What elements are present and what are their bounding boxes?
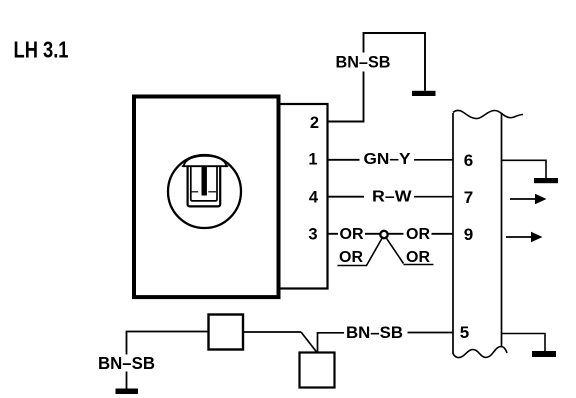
wire pin5 to ground [502,334,546,352]
wire B1 to branch point [243,331,301,333]
svg-text:BN–SB: BN–SB [336,53,391,72]
valve body outer wall [188,167,221,207]
wire splice to OR right [389,233,404,235]
valve level line left [191,191,198,193]
svg-text:OR: OR [406,249,430,266]
AIC valve module box [134,97,279,298]
valve level line right [208,191,216,193]
svg-text:OR: OR [339,249,363,266]
arrow at pin7 [510,198,537,200]
wire B2 up and right [318,333,345,353]
svg-text:OR: OR [406,226,430,243]
branch diagonal into B2 [301,332,317,353]
wire pin3 stub [327,233,338,235]
svg-text:5: 5 [460,323,469,342]
valve body inner wall [191,167,217,201]
cable harness right line [501,114,503,347]
wire to pin5 [408,332,453,334]
wire pin2 to ground, lower segment [327,72,364,122]
svg-text:7: 7 [464,188,473,207]
cable torn edge top [453,110,523,118]
svg-text:BN–SB: BN–SB [346,323,403,342]
svg-text:9: 9 [464,225,473,244]
svg-text:LH 3.1: LH 3.1 [14,37,69,63]
branch wire lower-left to splice [367,238,383,265]
svg-text:OR: OR [340,226,364,243]
cable torn edge bottom [453,347,507,358]
branch underline lower-right [404,264,434,266]
branch underline lower-left [338,265,368,267]
wire pin4 left segment [327,196,364,198]
wire pin1 left segment [327,159,360,161]
arrow at pin9 [506,236,533,238]
ground at pin5 bar [532,351,556,357]
wire pin4 right segment to pin7 [414,196,453,198]
svg-text:GN–Y: GN–Y [364,151,411,168]
svg-text:1: 1 [308,151,317,169]
wire OR to splice [365,233,380,235]
svg-text:BN–SB: BN–SB [98,353,155,373]
valve symbol circle [168,155,241,228]
ground G1 bar [412,91,436,96]
wire pin2 upper segment [364,33,426,91]
ground at pin6 bar [534,178,558,183]
svg-text:6: 6 [464,151,473,170]
component box B2 [300,353,335,388]
bottom wire left horizontal [127,332,209,355]
valve plunger [202,166,207,196]
svg-text:R–W: R–W [372,189,412,206]
svg-text:4: 4 [309,189,319,207]
wire pin6 to ground [502,160,547,178]
svg-text:3: 3 [308,226,317,244]
component box B1 [209,315,244,350]
bottom left ground drop [126,372,128,390]
svg-text:2: 2 [310,114,319,132]
valve cap dome [183,156,228,166]
wire pin1 right segment to pin6 [414,159,453,161]
ground bottom-left bar [116,389,139,395]
wire to pin9 [432,233,453,235]
cable harness left line [452,113,454,354]
splice junction [380,231,387,238]
branch wire lower-right to splice [387,238,404,263]
connector block [279,104,328,289]
